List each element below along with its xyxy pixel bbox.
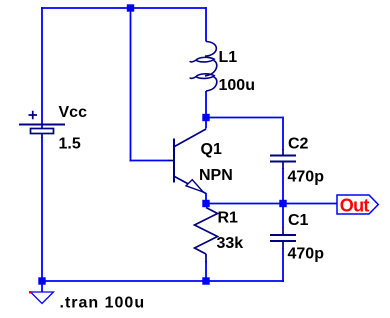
node Out flag	[337, 195, 378, 216]
svg-text:Vcc: Vcc	[59, 104, 88, 121]
node junction C2 / C1 / Out	[279, 200, 286, 207]
transistor Q1 NPN	[169, 129, 207, 194]
node junction top (Vcc rail / base / L1)	[127, 4, 134, 11]
ground symbol	[31, 292, 54, 304]
wire emitter row to out flag	[206, 203, 337, 205]
wire C2 to out node	[282, 168, 284, 204]
wire bottom rail	[41, 280, 284, 282]
wire emitter pin vertical	[205, 193, 207, 202]
capacitor C1	[270, 227, 296, 249]
wire C1 column upper	[282, 204, 284, 228]
wire ground stub	[41, 281, 43, 292]
wire inductor top stub	[205, 7, 207, 42]
capacitor C2	[270, 149, 296, 169]
wire C2 column upper	[282, 117, 284, 151]
resistor R1 zigzag	[195, 208, 218, 263]
node junction collector / L1 / C2	[202, 114, 209, 121]
ground pin red dot	[29, 291, 32, 294]
node junction ground rail	[38, 277, 45, 284]
wire left vertical lower (battery to bottom rail)	[41, 137, 43, 282]
wire left vertical upper (to battery)	[41, 7, 43, 124]
battery V1 Vcc symbol	[19, 111, 65, 138]
svg-text:470p: 470p	[288, 169, 325, 186]
wire collector row to C2	[206, 117, 282, 119]
wire collector pin vertical	[205, 119, 207, 129]
svg-text:C1: C1	[288, 212, 309, 229]
wire R1 bottom stub	[205, 261, 207, 281]
svg-text:L1: L1	[219, 49, 238, 66]
svg-text:100u: 100u	[219, 77, 255, 94]
svg-text:470p: 470p	[288, 246, 325, 263]
svg-text:Q1: Q1	[201, 141, 222, 158]
svg-text:33k: 33k	[217, 235, 244, 252]
svg-text:Out: Out	[340, 196, 370, 216]
wire inductor bottom stub	[205, 91, 207, 118]
wire C1 column lower	[282, 249, 284, 283]
svg-text:1.5: 1.5	[59, 136, 81, 153]
wire top horizontal	[41, 7, 206, 9]
wire base horizontal	[130, 160, 170, 162]
svg-text:.tran 100u: .tran 100u	[60, 295, 146, 312]
svg-text:NPN: NPN	[199, 167, 233, 184]
wire base column vertical	[130, 7, 132, 162]
svg-text:C2: C2	[288, 136, 309, 153]
node junction R1 bottom rail	[202, 277, 209, 284]
svg-text:R1: R1	[218, 210, 239, 227]
node junction emitter / R1	[202, 200, 209, 207]
inductor L1 coil	[190, 42, 217, 92]
